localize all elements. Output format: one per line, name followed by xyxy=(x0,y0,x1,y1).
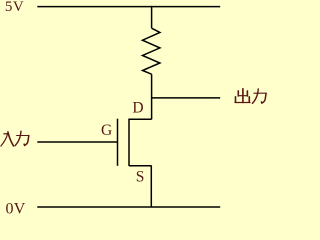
svg-text:0V: 0V xyxy=(6,200,26,216)
wire: resistor bottom to drain node xyxy=(151,74,153,119)
transistor Q1 channel bar xyxy=(128,119,130,166)
svg-text:S: S xyxy=(136,168,145,185)
wire: output line from drain node xyxy=(152,97,221,99)
label 出力 (output): kanji 出 xyxy=(235,89,250,103)
wire: gate lead from input xyxy=(37,141,117,143)
label 入力 (input): kanji 力 xyxy=(15,131,29,146)
wire: source to ground rail xyxy=(150,166,152,207)
wire: 0V bottom rail xyxy=(37,206,220,208)
wire: source stub xyxy=(129,165,152,167)
wire: drain stub xyxy=(129,118,152,120)
svg-text:D: D xyxy=(132,99,143,116)
svg-text:5V: 5V xyxy=(5,0,24,15)
wire: resistor top lead xyxy=(151,6,153,28)
label 出力 (output): kanji 力 xyxy=(252,89,266,104)
svg-text:G: G xyxy=(101,122,112,139)
wire: +5V top rail xyxy=(37,6,220,8)
resistor (drain load) xyxy=(143,28,160,74)
label 入力 (input): kanji 入 xyxy=(1,132,14,146)
transistor Q1 gate bar xyxy=(117,119,119,166)
